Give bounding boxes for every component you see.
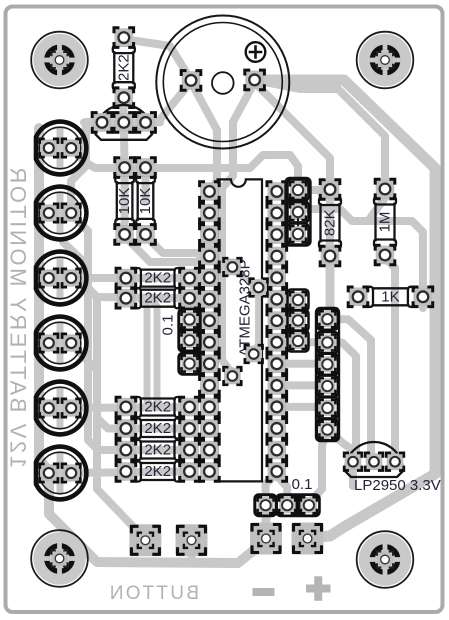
wire buzzer left down xyxy=(191,82,217,190)
wire minus stub xyxy=(262,512,271,533)
wire 82K top feed xyxy=(255,83,330,188)
mounting hole bottom-left xyxy=(31,530,88,587)
wire pair row2 stub xyxy=(97,297,190,298)
svg-text:10K: 10K xyxy=(116,188,133,215)
mounting hole bottom-right xyxy=(357,531,414,588)
resistor R9 2K2 xyxy=(134,419,182,439)
wire header to 1M xyxy=(305,190,385,221)
wire 82K bottom run xyxy=(327,256,330,319)
transistor outline Q1 xyxy=(95,105,153,140)
svg-text:2K2: 2K2 xyxy=(144,463,171,480)
svg-text:82K: 82K xyxy=(322,209,339,236)
resistor R7 1M xyxy=(374,197,396,247)
wire cap3 right up xyxy=(309,432,328,503)
wire xtal net1 xyxy=(232,267,258,288)
wire LED4 diag xyxy=(70,343,97,370)
wire 10K1 body pass xyxy=(121,168,129,236)
wire R4 stub xyxy=(190,274,210,282)
wire LP left feed2 xyxy=(327,343,356,463)
wire hdr h4 xyxy=(277,403,328,411)
resistor R3 10K xyxy=(136,176,155,227)
mounting hole top-right xyxy=(357,32,414,89)
wire cap stub1 xyxy=(190,320,210,321)
resistor R6 82K xyxy=(319,198,341,249)
wire Q1 left to LED2 xyxy=(71,122,102,212)
wire LED2 rail xyxy=(70,213,124,450)
wire hdr h3 xyxy=(277,381,328,389)
U1 left pin column xyxy=(200,182,220,202)
capacitor C3 0.1 footprint xyxy=(255,495,277,517)
wire osc out xyxy=(259,279,275,288)
wire R1 bottom to Q1 base xyxy=(120,96,128,122)
wire xtal net2 xyxy=(254,288,259,355)
wire C1 to 82K xyxy=(303,186,330,194)
wire buzzer- branch xyxy=(255,80,385,187)
svg-text:LP2950 3.3V: LP2950 3.3V xyxy=(354,477,441,494)
svg-text:2K2: 2K2 xyxy=(144,399,171,416)
wire buzzer+ to R1 top xyxy=(124,38,191,80)
svg-text:0.1: 0.1 xyxy=(292,476,313,493)
svg-text:2K2: 2K2 xyxy=(144,290,171,307)
svg-text:2K2: 2K2 xyxy=(144,270,171,287)
wire quad row3 pass xyxy=(124,446,190,454)
Q1 pads xyxy=(92,113,112,133)
wire net168 xyxy=(71,148,298,183)
svg-text:0.1: 0.1 xyxy=(160,315,177,336)
transistor outline U2 LP2950 xyxy=(345,442,403,477)
power input pad minus xyxy=(250,523,282,555)
wire Q1 base to 10K1 xyxy=(120,122,129,166)
LED LED1 xyxy=(57,127,64,169)
pushbutton S1 pads xyxy=(129,524,161,556)
capacitor C1 footprint xyxy=(286,178,311,246)
wire xtal stub xyxy=(222,258,232,266)
wire Q1 row pass xyxy=(84,118,160,126)
wire hdr stub2 xyxy=(277,341,298,342)
wire J3 bottom diag xyxy=(327,430,356,452)
resistor R12 1K xyxy=(366,287,415,307)
buzzer polarity mark + xyxy=(246,42,266,62)
U1 right pin column xyxy=(267,182,287,202)
wire mid v1 xyxy=(140,299,153,407)
wire 10K2 down xyxy=(146,236,210,253)
wire 10K2 body top xyxy=(142,168,150,200)
wire 10K1 down xyxy=(125,236,209,262)
wire LP left stub xyxy=(349,462,357,486)
svg-text:10K: 10K xyxy=(137,188,154,215)
wire LED diag a xyxy=(63,242,86,290)
resistor R11 2K2 xyxy=(134,462,182,482)
IC U1 ATMEGA328P outline xyxy=(218,179,262,481)
label plus xyxy=(306,576,331,600)
resistor R8 2K2 xyxy=(134,397,182,417)
wire cap3 mid up xyxy=(277,476,287,503)
wire buzzer right down xyxy=(222,82,255,372)
wire cap3 up xyxy=(266,473,277,503)
single pin pad xyxy=(179,353,201,375)
wire buzzer- right run xyxy=(255,80,435,538)
capacitor C2 0.1 footprint xyxy=(179,309,201,352)
crystal pads xyxy=(224,258,242,276)
svg-text:12V BATTERY MONITOR: 12V BATTERY MONITOR xyxy=(6,165,31,468)
wire hdr h1 xyxy=(277,338,328,346)
wire LED6 to R11 xyxy=(70,472,190,474)
LED LED6 xyxy=(57,452,64,494)
label minus xyxy=(253,588,275,596)
wire button stub xyxy=(188,548,196,561)
U2 pads xyxy=(344,453,362,471)
LED LED4 xyxy=(57,322,64,364)
wire cap stub3 xyxy=(190,360,210,368)
wire LED5 to R8 xyxy=(70,407,190,408)
wire LP mid feed xyxy=(327,319,374,462)
svg-text:1K: 1K xyxy=(381,288,399,305)
svg-text:1M: 1M xyxy=(377,212,394,233)
svg-text:2K2: 2K2 xyxy=(144,442,171,459)
wire quad row2 stub xyxy=(97,418,190,429)
buzzer pad left xyxy=(181,71,201,91)
wire R5 stub xyxy=(190,295,210,303)
svg-text:BUTTON: BUTTON xyxy=(107,583,199,604)
power input pad plus xyxy=(292,523,324,555)
LED LED5 xyxy=(57,387,64,429)
wire hdr stub1 xyxy=(277,317,298,325)
wire 82K body pass xyxy=(326,190,334,256)
header J2 pads xyxy=(288,290,309,311)
resistor R10 2K2 xyxy=(134,440,182,460)
C1 plus mark xyxy=(294,218,302,226)
LED LED2 xyxy=(57,192,64,234)
resistor R5 2K2 xyxy=(134,288,182,308)
wire 1M to LP right xyxy=(385,255,395,462)
mounting hole top-left xyxy=(31,32,88,89)
svg-text:2K2: 2K2 xyxy=(115,54,132,81)
wire hdr h2 xyxy=(277,360,328,368)
wire 1K right up xyxy=(368,221,423,308)
LED LED3 xyxy=(57,257,64,299)
svg-text:2K2: 2K2 xyxy=(144,420,171,437)
wire cap stub2 xyxy=(190,340,210,342)
wire hdr stub0 xyxy=(277,295,298,304)
wire button rail xyxy=(88,288,143,537)
piezo buzzer BZ1 xyxy=(156,16,289,149)
buzzer pad right xyxy=(245,70,265,90)
header J3 outline xyxy=(316,308,339,441)
wire LED3 to R4 xyxy=(70,274,190,282)
wire mid v2 xyxy=(150,299,163,407)
wire LED cathode rail xyxy=(39,128,263,563)
resistor R2 10K xyxy=(115,176,134,227)
wire Q1 right to buzzer xyxy=(146,84,189,122)
resistor R4 2K2 xyxy=(134,268,182,288)
resistor R1 2K2 xyxy=(113,46,135,90)
